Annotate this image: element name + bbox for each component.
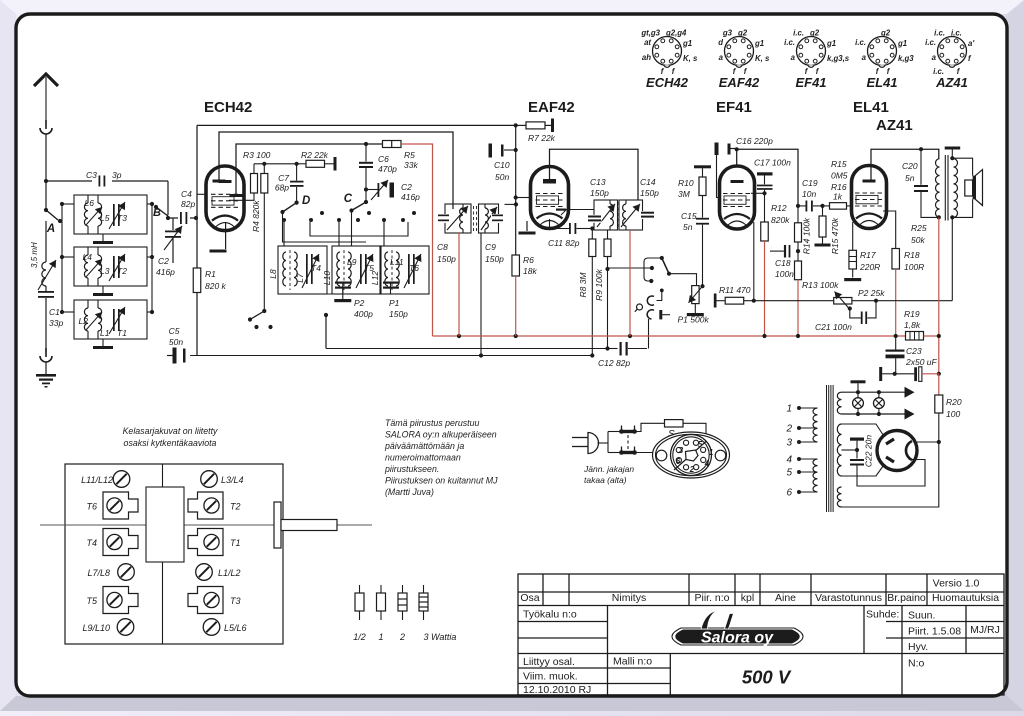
svg-text:L7/L8: L7/L8 [87,568,110,578]
padder capacitor P1 150p [390,282,392,294]
svg-text:L7: L7 [295,273,305,283]
svg-text:Br.paino: Br.paino [887,592,926,604]
svg-text:AZ41: AZ41 [876,117,913,134]
svg-text:50n: 50n [169,337,183,347]
resistor R8 3M [591,229,593,240]
capacitor C16 220p [715,143,719,156]
svg-text:ah: ah [642,53,651,62]
resistor R14 100k [797,206,799,223]
speaker [965,180,973,196]
svg-text:C: C [344,193,353,205]
heater winding 6.3V [837,392,841,414]
svg-text:g2,g4: g2,g4 [665,29,687,38]
IF1 transformer box secondary C9 [479,204,499,233]
svg-text:L5: L5 [100,213,110,223]
svg-text:3M: 3M [678,189,691,199]
tube ECH42 [206,166,244,231]
capacitor C18 100n [770,250,784,252]
svg-text:1/2: 1/2 [353,632,366,642]
svg-text:SALORA oy:n alkuperäiseen: SALORA oy:n alkuperäiseen [385,430,497,440]
resistor R16 1k [820,204,824,208]
svg-text:5: 5 [698,440,703,449]
svg-text:R8 3M: R8 3M [578,272,588,298]
svg-text:C7: C7 [278,173,289,183]
svg-text:AZ41: AZ41 [935,75,968,90]
svg-text:R15 470k: R15 470k [830,217,840,254]
svg-text:Piirustuksen on kuitannut MJ: Piirustuksen on kuitannut MJ [385,476,498,486]
IF2 transformer box secondary C13 [594,200,618,230]
svg-text:g1: g1 [897,39,907,48]
svg-text:R16: R16 [831,182,847,192]
resistor R6 18k [512,255,520,276]
svg-text:L6: L6 [85,198,95,208]
capacitor C10 50n [489,144,493,158]
heater rail bottom [842,413,909,415]
mains transformer core [826,385,828,512]
svg-text:L5/L6: L5/L6 [224,623,247,633]
band switch lower contacts [250,311,264,320]
EF41 cathode lead [753,222,755,301]
rectifier filament winding [837,487,841,507]
svg-text:500 V: 500 V [742,667,792,688]
capacitor C3 3p [99,176,101,187]
wire grid EAF42 [516,197,531,199]
switch radio-phono contacts [608,267,652,269]
node antenna C3 tap [44,179,48,183]
svg-text:R9 100k: R9 100k [594,268,604,300]
svg-text:takaa (alta): takaa (alta) [584,475,627,485]
tube base diagram ECH42 [653,37,682,66]
svg-text:12.10.2010 RJ: 12.10.2010 RJ [523,684,591,696]
svg-text:g1: g1 [826,39,836,48]
svg-text:Suun.: Suun. [908,610,935,622]
red wire R5 feed [401,144,433,336]
wire A to coil 3.5mH [45,221,47,262]
capacitor C11 82p [549,219,551,229]
tube base diagram EF41 [797,37,826,66]
wire diode to IF2 secondary [569,209,595,211]
svg-text:i.c.: i.c. [793,29,804,38]
svg-text:Jänn. jakajan: Jänn. jakajan [583,464,634,474]
output transformer core [944,155,946,221]
capacitor C21 100n [850,309,861,318]
wire oscillator bank bottom [278,293,423,295]
svg-text:L11/L12: L11/L12 [81,475,113,485]
svg-text:Osa: Osa [520,592,539,604]
oscillator coils L12 L11 T6 [380,246,429,294]
resistor R4 820k [263,164,265,174]
svg-text:T6: T6 [409,263,419,273]
mains switch [620,430,637,433]
resistor R20 100 [935,395,943,413]
svg-text:EF41: EF41 [795,75,826,90]
svg-text:P2 25k: P2 25k [858,288,885,298]
oscillator coils L10 L9 T5 [332,246,381,294]
svg-text:3: 3 [786,438,792,449]
wire C3 line [46,180,168,182]
oscillator coils L8 L7 T4 [278,246,327,294]
capacitor C5 50n [167,355,174,357]
resistor R13 100k [795,261,802,280]
wire heptode anode to IF1 [219,132,453,209]
wire EAF42 anode to IF2 [550,149,639,200]
svg-text:R20: R20 [946,397,962,407]
svg-text:T4: T4 [86,538,97,548]
svg-text:R25: R25 [911,223,927,233]
resistor R7 22k [516,124,526,126]
svg-text:3p: 3p [112,170,122,180]
mains transformer primary winding [813,408,818,442]
capacitor C19 10n [796,204,800,208]
coil screw L3/L4 [201,471,218,488]
wire R18 to rail red [895,269,897,336]
svg-text:C17 100n: C17 100n [754,158,791,168]
antenna [34,74,58,86]
svg-text:C16 220p: C16 220p [736,136,773,146]
output transformer secondary [954,159,958,218]
svg-text:Tämä piirustus perustuu: Tämä piirustus perustuu [385,418,479,428]
svg-text:R10: R10 [678,178,694,188]
svg-text:820 k: 820 k [205,281,227,291]
svg-text:2x50 uF: 2x50 uF [905,357,938,367]
svg-text:ECH42: ECH42 [646,75,689,90]
svg-text:P1 500k: P1 500k [678,315,710,325]
svg-text:numeroimattomaan: numeroimattomaan [385,453,461,463]
svg-text:150p: 150p [389,309,408,319]
wire HV to rectifier anodes [842,424,885,437]
speaker chassis bar [945,147,961,150]
svg-text:R12: R12 [771,203,787,213]
coil screw L7/L8 [118,564,135,581]
switch A [46,210,58,220]
inductor 3.5 mH variable [42,262,46,286]
rectifier tube AZ41 [877,431,917,471]
svg-text:g1: g1 [682,39,692,48]
wire main top rail [197,124,516,126]
svg-text:68p: 68p [275,183,289,193]
red wire R6 [515,276,517,336]
svg-text:T5: T5 [86,596,97,606]
svg-text:T3: T3 [117,213,127,223]
output transformer primary [936,159,940,218]
svg-text:L12: L12 [370,271,380,285]
svg-text:R5: R5 [404,150,415,160]
svg-text:EAF42: EAF42 [528,99,575,116]
IF1 transformer box primary C8 [445,204,471,233]
svg-text:R13 100k: R13 100k [802,280,839,290]
wire triode anode rail [236,144,366,196]
svg-text:i.c.: i.c. [784,38,795,47]
svg-text:a: a [719,53,724,62]
svg-text:gt,g3: gt,g3 [640,29,660,38]
svg-text:d: d [718,38,723,47]
svg-text:R7 22k: R7 22k [528,133,556,143]
page frame bevel [0,0,1024,14]
svg-text:4: 4 [786,455,792,466]
socket key [674,441,707,470]
svg-text:4: 4 [704,459,710,468]
ground antenna [36,374,56,377]
svg-text:B: B [153,207,161,219]
resistor R5 33k [364,142,368,146]
phono jack hook 2 [647,310,654,319]
svg-text:150p: 150p [590,188,609,198]
svg-text:Piirt. 1.5.08: Piirt. 1.5.08 [908,626,961,638]
red wire rail to C23 [924,335,939,337]
wire switch to fuse [637,423,665,431]
svg-text:T6: T6 [86,502,97,512]
svg-text:Salora oy: Salora oy [701,630,774,647]
svg-text:L4: L4 [83,252,93,262]
resistor R17 220R [849,250,857,269]
svg-text:Kelasarjakuvat on liitetty: Kelasarjakuvat on liitetty [123,426,218,436]
legend resistor 1/2W [359,585,361,593]
svg-text:i.c.: i.c. [855,38,866,47]
wire to AVC rail [325,315,327,349]
node C6 C2 [364,187,368,191]
wire hook to C12 rail [648,319,650,349]
svg-text:L3: L3 [100,266,110,276]
coil clamp T3 [188,587,223,614]
legend resistor 1W [380,585,382,593]
svg-text:T1: T1 [230,538,241,548]
svg-text:R15: R15 [831,159,847,169]
red wire output primary to rail [938,217,940,336]
wire screen vertical 516 [515,125,517,255]
svg-text:C9: C9 [485,242,496,252]
resistor R15 470k [822,206,824,216]
svg-text:R3 100: R3 100 [243,150,271,160]
socket mounting ears [656,450,667,461]
capacitor C6 470p [365,144,367,162]
svg-text:33p: 33p [49,318,63,328]
svg-text:100R: 100R [904,262,924,272]
svg-text:Nimitys: Nimitys [612,592,646,604]
svg-text:220R: 220R [859,262,880,272]
svg-text:i.c.: i.c. [934,29,945,38]
svg-text:päiväämättömään ja: päiväämättömään ja [384,441,464,451]
svg-text:Liittyy osal.: Liittyy osal. [523,656,575,668]
tube EL41 [852,166,887,229]
EAF42 diode plate [556,209,566,211]
title block table [518,574,1004,695]
svg-text:osaksi kytkentäkaaviota: osaksi kytkentäkaaviota [124,438,217,448]
wire switch lower to socket [637,452,654,454]
coil clamp T2 [188,492,223,519]
voltage selector socket [653,432,730,478]
capacitor C1 33p [45,286,47,291]
svg-text:C20: C20 [902,161,918,171]
capacitor C15 5n [696,218,709,220]
svg-text:Malli n:o: Malli n:o [613,656,652,668]
svg-text:L11: L11 [390,257,404,267]
svg-text:Aine: Aine [775,592,796,604]
svg-text:C10: C10 [494,160,510,170]
svg-text:1: 1 [786,404,792,415]
capacitor C22 20n [842,449,858,451]
svg-text:C2: C2 [158,256,169,266]
svg-text:L1/L2: L1/L2 [218,568,241,578]
svg-text:C5: C5 [169,326,180,336]
svg-text:g2: g2 [809,29,820,38]
svg-text:416p: 416p [401,192,420,202]
svg-text:T1: T1 [117,328,127,338]
wire EF41 grid2 exit [751,192,765,194]
svg-text:50k: 50k [911,235,925,245]
svg-text:Huomautuksia: Huomautuksia [932,592,999,604]
svg-text:C4: C4 [181,189,192,199]
svg-text:i.c.: i.c. [925,38,936,47]
svg-text:Varastotunnus: Varastotunnus [815,592,882,604]
svg-text:C18: C18 [775,258,791,268]
EL41 cathode lead [852,222,854,250]
tuned circuit L2 L1 T1 [74,300,147,339]
svg-text:3: 3 [679,446,684,455]
svg-text:Versio 1.0: Versio 1.0 [933,578,980,590]
wire C3 to B [167,181,169,215]
wire switch to P1 [669,274,697,286]
svg-text:a: a [932,53,937,62]
tube base diagram EL41 [868,37,897,66]
svg-text:k,g3: k,g3 [898,54,914,63]
svg-text:C6: C6 [378,154,389,164]
svg-text:400p: 400p [354,309,373,319]
band switch contacts right [151,204,153,312]
svg-text:MJ/RJ: MJ/RJ [970,624,1000,636]
resistor R1 820k [193,268,201,293]
svg-text:5: 5 [786,468,792,479]
svg-text:Työkalu n:o: Työkalu n:o [523,609,577,621]
svg-text:EL41: EL41 [853,99,889,116]
svg-text:D: D [302,195,310,207]
svg-text:Hyv.: Hyv. [908,641,928,653]
tuned circuit L4 L3 T2 [74,247,147,286]
svg-text:C8: C8 [437,242,448,252]
resistor R10 3M [694,165,711,168]
svg-text:R11 470: R11 470 [719,285,751,295]
svg-text:C23: C23 [906,346,922,356]
phono jack hook 1 [660,289,664,293]
svg-text:T3: T3 [230,596,241,606]
resistor R12 820k [764,193,766,222]
oscillator switch contact dots [282,218,286,222]
svg-text:R1: R1 [205,269,216,279]
svg-text:2: 2 [689,465,695,474]
wire P2 to speaker return [852,300,952,302]
volume pot P1 500k [692,286,699,304]
svg-text:R18: R18 [904,250,920,260]
svg-text:k,g3,s: k,g3,s [827,54,850,63]
svg-text:150p: 150p [485,254,504,264]
svg-text:piirustukseen.: piirustukseen. [384,464,439,474]
wire grid1 ECH42 [197,193,207,195]
svg-text:18k: 18k [523,266,537,276]
svg-text:C11 82p: C11 82p [548,238,580,248]
tube EF41 [720,166,755,229]
grid2 box exit ECH42 [229,199,254,201]
svg-text:g2: g2 [737,29,748,38]
svg-text:C1: C1 [49,307,60,317]
coil screw L9/L10 [117,619,134,636]
wire R13 to rail red [797,280,799,336]
coil clamp T1 [188,529,223,556]
padder capacitor P2 400p [342,282,344,294]
red wire to R20 [938,374,940,395]
svg-text:L9: L9 [347,257,357,267]
resistor R18 100R [892,249,900,270]
dial lamp 1 [856,390,860,394]
svg-text:C19: C19 [802,178,818,188]
svg-text:T2: T2 [117,266,127,276]
svg-text:K, s: K, s [755,54,770,63]
band switch contacts left [61,204,63,312]
IF1 coupling dashes [473,206,475,231]
coil box axis line [40,524,372,526]
svg-text:C3: C3 [86,170,97,180]
svg-text:T2: T2 [230,502,241,512]
svg-text:Viim. muok.: Viim. muok. [523,671,578,683]
legend resistor 3W [423,585,425,593]
svg-text:C21 100n: C21 100n [815,322,852,332]
wire rectifier output [842,442,939,507]
svg-text:i.c.: i.c. [951,29,962,38]
resistor R3 100 [253,164,255,174]
wire plug to switch [598,442,609,444]
EAF42 cathode ground [526,221,528,231]
tuning capacitor C2 416p section A [172,218,174,230]
svg-text:2: 2 [399,632,405,642]
svg-text:L8: L8 [268,269,278,279]
svg-text:P2: P2 [354,298,365,308]
wire IF1 secondary return [480,233,482,356]
fuse S [665,420,684,427]
svg-text:6: 6 [676,457,681,466]
EL41 grid exit to R18 [883,211,896,249]
coil core [146,487,184,562]
svg-text:0M5: 0M5 [831,171,848,181]
svg-text:K, s: K, s [683,54,698,63]
legend resistor 2W [402,585,404,593]
capacitor C7 68p [296,164,298,181]
switch D [295,201,299,205]
coil box frame [65,464,283,644]
svg-text:1k: 1k [833,192,843,202]
svg-text:C13: C13 [590,177,606,187]
svg-text:150p: 150p [640,188,659,198]
wire C9 secondary top to grid [498,200,517,204]
svg-text:5n: 5n [683,222,693,232]
socket pins [683,440,688,445]
electrolytic C23 2x50uF [895,336,897,350]
capacitor C20 5n [920,149,922,185]
svg-text:at: at [644,38,651,47]
Salora logo [672,611,803,647]
IF2 transformer box primary C14 [619,200,643,230]
coil screw L5/L6 [203,619,220,636]
svg-text:C15: C15 [681,211,697,221]
svg-text:5n: 5n [905,173,915,183]
wire secondary to speaker [952,158,972,175]
svg-text:ECH42: ECH42 [204,99,252,116]
wire bank stubs [283,222,285,246]
svg-text:470p: 470p [378,164,397,174]
tuning capacitor C2 416p section B [366,189,378,191]
svg-text:R4 820k: R4 820k [251,200,261,232]
svg-text:Piir. n:o: Piir. n:o [694,592,729,604]
svg-text:50n: 50n [495,172,509,182]
svg-text:820k: 820k [771,215,790,225]
svg-text:6: 6 [786,488,792,499]
